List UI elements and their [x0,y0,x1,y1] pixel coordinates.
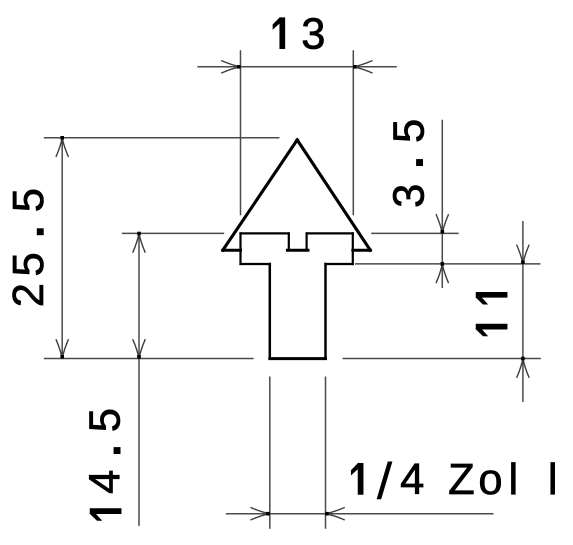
svg-text:o: o [478,456,502,504]
svg-text:5: 5 [82,408,130,432]
svg-text:4: 4 [82,470,130,494]
svg-text:l: l [508,456,518,504]
svg-text:5: 5 [386,119,434,143]
svg-text:3: 3 [301,10,325,58]
svg-text:3: 3 [386,184,434,208]
svg-text:5: 5 [5,188,53,212]
svg-text:2: 2 [5,283,53,307]
svg-text:4: 4 [400,456,424,504]
svg-text:l: l [548,456,558,504]
svg-text:5: 5 [5,252,53,276]
svg-text:Z: Z [448,456,475,504]
